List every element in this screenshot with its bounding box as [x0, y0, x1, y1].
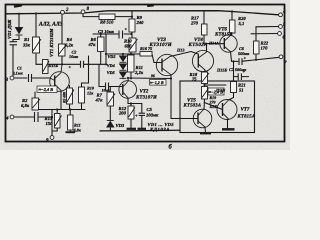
svg-text:33к: 33к	[22, 43, 31, 48]
svg-text:4: 4	[282, 9, 286, 15]
svg-text:75: 75	[192, 77, 197, 82]
svg-text:VD4: VD4	[107, 63, 115, 68]
svg-text:КТ3107И: КТ3107И	[149, 42, 173, 48]
svg-text:170: 170	[261, 46, 269, 51]
svg-text:5,1: 5,1	[239, 21, 245, 26]
svg-text:VD1 Д9Ж: VD1 Д9Ж	[7, 19, 12, 39]
svg-text:200: 200	[118, 111, 127, 116]
svg-text:П13: П13	[176, 48, 184, 53]
svg-text:10мк: 10мк	[69, 54, 79, 59]
svg-text:R4: R4	[67, 37, 73, 42]
svg-text:2: 2	[65, 7, 69, 13]
svg-text:VT2: VT2	[140, 89, 149, 95]
svg-text:10мк: 10мк	[102, 89, 110, 93]
svg-text:R1: R1	[24, 37, 29, 42]
svg-text:VD5: VD5	[107, 70, 115, 75]
svg-text:6,8к: 6,8к	[21, 103, 30, 108]
svg-text:С5: С5	[147, 107, 153, 112]
svg-text:VT7: VT7	[241, 107, 250, 113]
svg-text:150: 150	[46, 121, 54, 126]
svg-text:+: +	[69, 65, 72, 70]
svg-text:47к: 47к	[95, 98, 104, 103]
svg-text:≈−2,4 В: ≈−2,4 В	[39, 87, 54, 92]
svg-text:≈−1,2 В: ≈−1,2 В	[150, 80, 164, 85]
svg-text:С3 10мк: С3 10мк	[98, 29, 115, 34]
svg-text:+: +	[244, 56, 247, 61]
svg-text:КД103А: КД103А	[149, 127, 170, 133]
svg-text:VD1 ... VD5: VD1 ... VD5	[148, 122, 175, 127]
svg-text:КТ815А: КТ815А	[237, 113, 256, 119]
svg-text:КТ503А: КТ503А	[183, 102, 202, 108]
svg-text:АЛ2, АЛ3: АЛ2, АЛ3	[38, 22, 63, 28]
svg-text:4: 4	[5, 116, 9, 122]
svg-text:КТ502А: КТ502А	[188, 42, 208, 48]
svg-text:680: 680	[125, 44, 133, 49]
svg-text:П15Б: П15Б	[216, 68, 227, 73]
svg-text:R5 680: R5 680	[63, 92, 67, 103]
svg-text:96: 96	[151, 74, 155, 78]
svg-text:VT3: VT3	[157, 37, 166, 43]
svg-text:П3Б: П3Б	[209, 104, 218, 109]
svg-text:3: 3	[5, 77, 9, 83]
svg-text:+: +	[125, 27, 128, 32]
svg-text:+: +	[135, 113, 138, 118]
svg-text:51: 51	[239, 88, 244, 93]
svg-text:VD2: VD2	[108, 54, 116, 59]
svg-text:VT4: VT4	[194, 37, 203, 43]
svg-text:6,2к: 6,2к	[65, 43, 74, 48]
svg-text:240: 240	[136, 20, 145, 25]
svg-text:100мк: 100мк	[146, 113, 159, 118]
svg-text:П15Б: П15Б	[48, 63, 59, 68]
svg-text:+: +	[243, 69, 246, 74]
svg-text:12к: 12к	[87, 91, 94, 96]
svg-text:47к: 47к	[88, 42, 97, 47]
svg-text:VD3: VD3	[116, 123, 125, 128]
svg-text:VT1 КТ3102М: VT1 КТ3102М	[49, 28, 54, 57]
svg-text:КТ3107И: КТ3107И	[135, 94, 157, 100]
svg-text:≈−2,4 В: ≈−2,4 В	[209, 90, 224, 95]
svg-text:270: 270	[190, 21, 199, 26]
svg-text:П14А: П14А	[208, 41, 219, 46]
svg-text:КТ815Б: КТ815Б	[214, 31, 233, 37]
svg-text:R8 510: R8 510	[100, 20, 114, 25]
svg-text:6,8к: 6,8к	[74, 128, 82, 133]
svg-text:0,1мк: 0,1мк	[13, 71, 24, 76]
svg-text:2,2к: 2,2к	[134, 70, 144, 75]
